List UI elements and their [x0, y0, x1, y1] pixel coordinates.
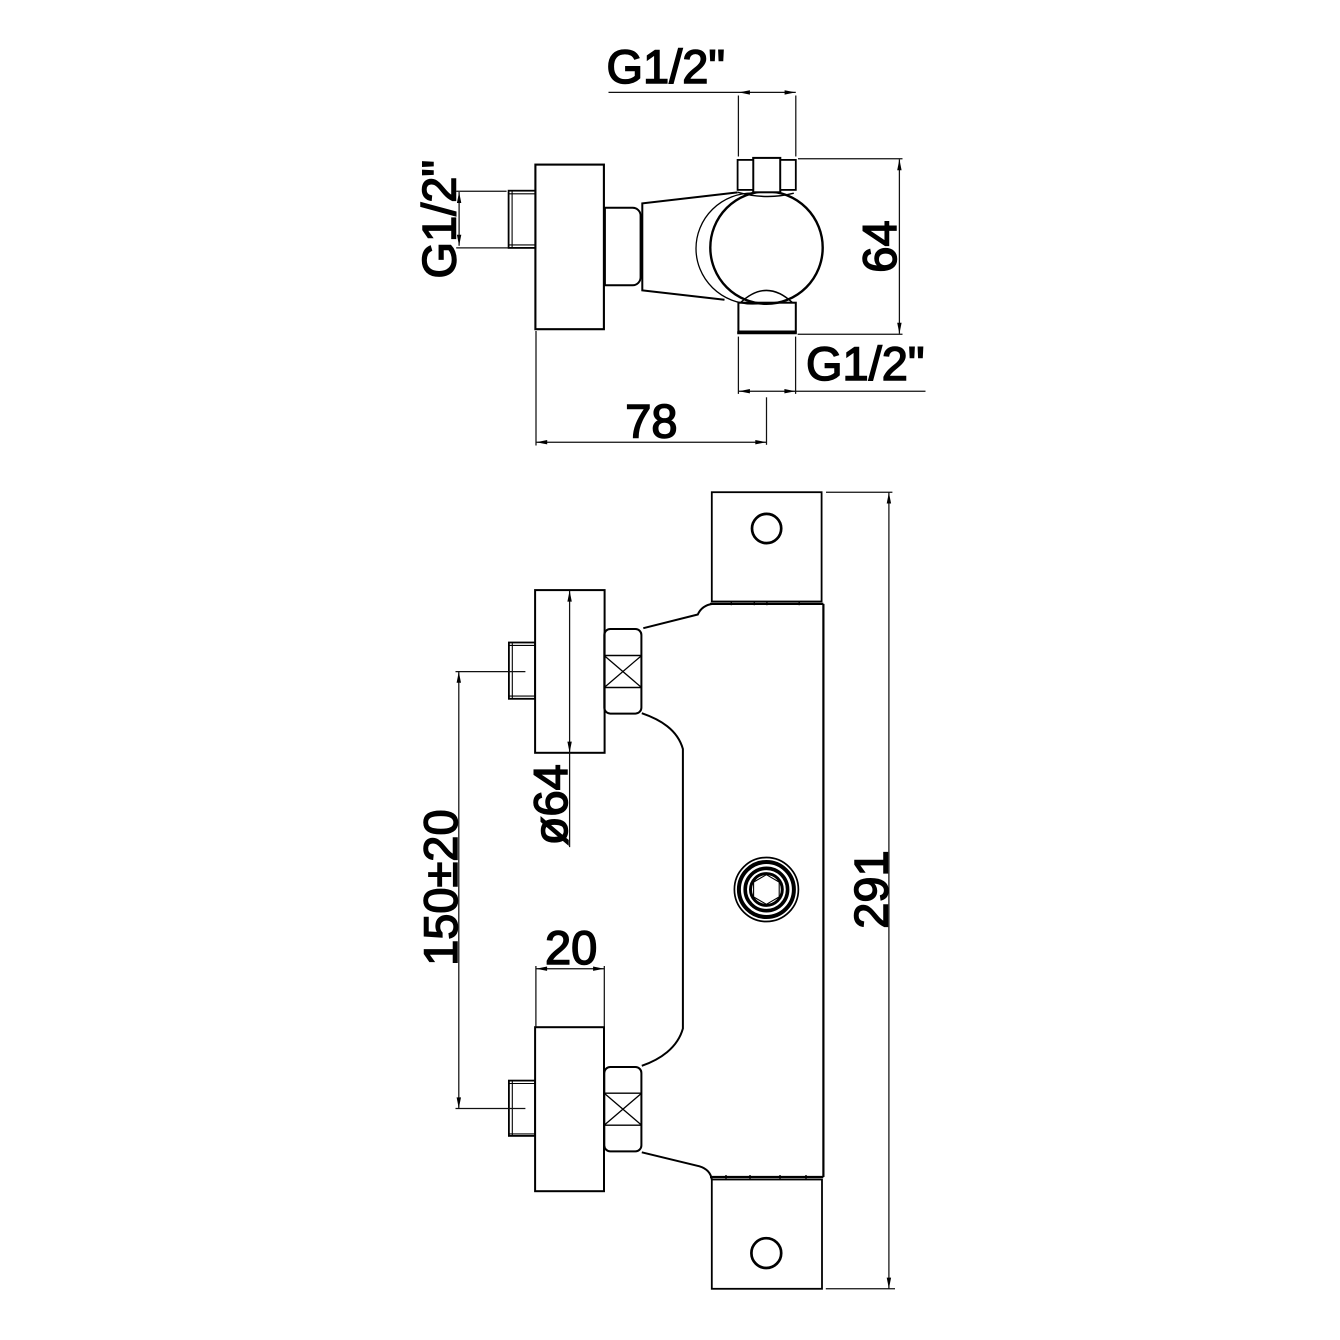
extension line right, 78 (outlet axis)	[766, 397, 768, 445]
upper union box band bottom line	[604, 687, 641, 689]
dim line 291	[888, 492, 890, 1288]
arrowhead 150±20, down	[457, 1097, 461, 1108]
dim line 78	[536, 441, 767, 443]
dim line G1/2 left inlet	[458, 192, 460, 246]
inlet nipple (top view)	[509, 191, 536, 248]
lower union box band top line	[604, 1092, 641, 1094]
arrowhead 291, up	[887, 493, 891, 504]
hatch tick, bottom junction 2	[749, 1175, 751, 1179]
svg-text:20: 20	[545, 921, 597, 974]
hatch tick, bottom junction 1	[725, 1175, 727, 1179]
arrowhead 20, right	[593, 967, 604, 971]
extension line left, G1/2 top	[737, 96, 739, 157]
svg-text:291: 291	[844, 850, 897, 928]
dim line 64	[898, 159, 900, 334]
bottom bracket screw hole	[751, 1238, 781, 1268]
hatch tick, top junction 4	[798, 601, 800, 605]
extension line bottom, 291	[826, 1288, 895, 1290]
dim line 20	[536, 968, 604, 970]
body silhouette, top-left fillet and diagonal	[643, 604, 712, 628]
upper union box X diagonal 1	[605, 656, 641, 687]
adapter bush between plate and cone (top view)	[605, 208, 641, 286]
sphere-cylinder meeting arc, top	[738, 192, 794, 196]
extension line top, 64	[798, 158, 903, 160]
svg-text:G1/2": G1/2"	[806, 337, 925, 390]
arrowhead phi64, down	[567, 742, 571, 753]
extension line bottom, 64	[798, 333, 903, 335]
arrowhead G1/2 left, down	[457, 235, 461, 246]
arrowhead G1/2 bottom, left	[739, 389, 750, 393]
bottom mounting bracket	[712, 1180, 822, 1289]
extension line left, 20	[535, 966, 537, 1027]
wall plate (top view)	[535, 165, 604, 330]
extension line right, G1/2 top	[795, 96, 797, 157]
body silhouette, bottom-left diagonal and fillet	[642, 1152, 712, 1179]
upper union box X diagonal 2	[605, 656, 641, 687]
top mounting bracket	[712, 492, 822, 601]
arrowhead 150±20, up	[457, 672, 461, 683]
bottom outlet block thick bottom edge	[737, 331, 797, 334]
arrowhead 64, up	[897, 159, 901, 170]
lower union box X diagonal 1	[605, 1094, 641, 1125]
upper union box	[604, 629, 641, 714]
top outlet hex nut, left facet	[738, 160, 754, 190]
nipple thread relief line, vertical (top view)	[511, 192, 513, 248]
hatch tick, bottom junction 3	[779, 1175, 781, 1179]
extension line top, G1/2 left	[456, 190, 506, 192]
lower union box X diagonal 2	[605, 1094, 641, 1125]
lower inlet nipple	[509, 1081, 535, 1136]
upper nipple thread relief, vertical	[511, 643, 513, 698]
svg-text:64: 64	[853, 220, 906, 272]
cone handle silhouette (top view)	[642, 192, 737, 299]
lower union box	[604, 1067, 641, 1151]
top bracket screw hole	[752, 514, 781, 543]
dim line G1/2 bottom outlet	[739, 390, 926, 392]
outlet boss ring 2	[739, 862, 794, 917]
body bottom shoulder line (thick)	[710, 1176, 823, 1178]
svg-text:ø64: ø64	[524, 764, 577, 845]
arrowhead 78, right	[755, 440, 766, 444]
lower nipple thread relief, bottom	[509, 1133, 535, 1135]
hatch tick, bottom junction 4	[805, 1175, 807, 1179]
body right edge	[822, 604, 824, 1177]
dim line G1/2 top outlet	[609, 91, 796, 93]
lower escutcheon plate	[535, 1027, 604, 1191]
extension line right, 20	[603, 966, 605, 1027]
bottom outlet block (top view)	[738, 303, 795, 332]
lower nipple thread relief, vertical	[511, 1081, 513, 1135]
outlet boss outer ring	[734, 858, 798, 922]
arrowhead G1/2 left, up	[457, 192, 461, 203]
upper escutcheon plate	[535, 590, 605, 753]
extension line right, G1/2 bottom	[795, 337, 797, 394]
nipple thread relief line, bottom (top view)	[509, 244, 535, 246]
upper inlet nipple	[509, 643, 535, 699]
hatch tick, top junction 2	[753, 601, 755, 605]
arrowhead phi64, up	[567, 591, 571, 602]
arrowhead G1/2 top, left	[739, 90, 750, 94]
arrowhead 20, left	[536, 967, 547, 971]
sphere-cylinder meeting arc, bottom	[741, 290, 793, 302]
nipple thread relief line, top (top view)	[509, 193, 535, 195]
extension line left, 78 (wall plane)	[535, 331, 537, 446]
arrowhead G1/2 top, right	[785, 90, 796, 94]
outlet boss inner ring	[751, 874, 783, 906]
arrowhead G1/2 bottom, right	[784, 389, 795, 393]
hatch tick, top junction 1	[730, 601, 732, 605]
arrowhead 291, down	[887, 1278, 891, 1289]
outlet boss ring 3	[745, 868, 787, 910]
lower nipple thread relief, top	[509, 1083, 535, 1085]
extension line top, 291	[826, 491, 892, 493]
upper nipple thread relief, top	[509, 644, 535, 646]
center line, lower inlet axis	[456, 1108, 526, 1110]
arrowhead 78, left	[536, 440, 547, 444]
upper nipple thread relief, bottom	[509, 695, 535, 697]
cone base ellipse (top view)	[696, 193, 809, 304]
hatch tick, top junction 3	[766, 601, 768, 605]
dim line 150±20	[458, 672, 460, 1109]
arrowhead 64, down	[897, 323, 901, 334]
top outlet hex nut, middle facet	[753, 158, 780, 192]
extension line bottom, G1/2 left	[456, 247, 508, 249]
center line, upper inlet axis	[456, 671, 526, 673]
svg-text:G1/2": G1/2"	[607, 40, 726, 93]
upper union box band top line	[604, 655, 641, 657]
valve body circle (top view)	[710, 191, 822, 303]
svg-text:150±20: 150±20	[414, 809, 467, 966]
svg-text:G1/2": G1/2"	[413, 160, 466, 279]
svg-text:78: 78	[625, 395, 677, 448]
dim line phi64	[569, 591, 571, 847]
extension line left, G1/2 bottom	[737, 337, 739, 394]
body silhouette, waist between valve bodies	[642, 713, 683, 1066]
top outlet hex nut, right facet	[780, 160, 796, 190]
body top shoulder line (thick)	[710, 603, 823, 605]
lower union box band bottom line	[604, 1124, 641, 1126]
outlet boss hex socket	[754, 875, 780, 905]
